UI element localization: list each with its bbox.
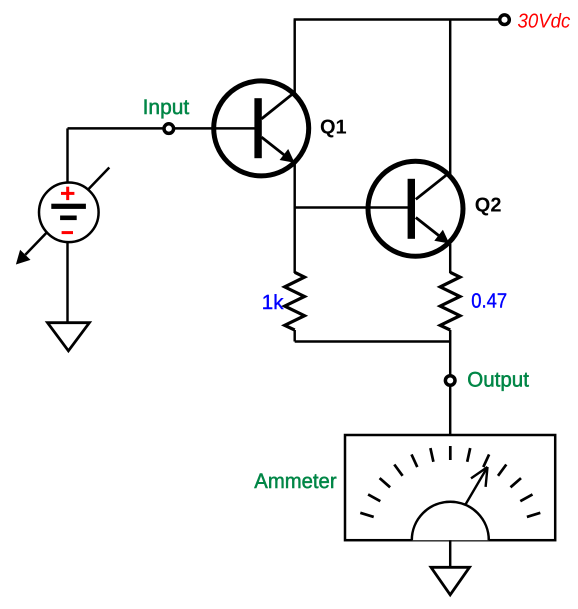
source V1 variable battery with arrow — [16, 168, 109, 265]
wire: Q1 emitter down to 1k resistor — [293, 164, 295, 274]
Q1 emitter line with arrow — [262, 137, 285, 155]
svg-text:Ammeter: Ammeter — [254, 470, 336, 493]
ground (bottom) — [431, 567, 470, 595]
ammeter needle — [465, 467, 487, 505]
transistor Q1 — [212, 81, 309, 176]
wire: Q2 emitter to 0.47 resistor — [449, 244, 451, 273]
ground (left) — [48, 323, 90, 351]
wire: top 30V rail horizontal — [294, 18, 500, 20]
wire: ammeter to ground — [449, 540, 451, 568]
resistor 1k zigzag — [285, 272, 305, 330]
source circle — [39, 183, 99, 243]
wire: Q1 collector drop from rail — [293, 20, 295, 94]
terminal node 30Vdc — [500, 15, 510, 25]
ammeter scale ticks — [360, 446, 540, 517]
terminal node Output — [445, 376, 455, 386]
resistor 0.47 zigzag — [440, 272, 460, 330]
Q2 emitter line with arrow — [416, 218, 439, 236]
Q1 collector line — [262, 92, 296, 119]
wire: source top vertical — [66, 128, 68, 184]
wire: source to ground — [66, 242, 68, 322]
transistor Q2 — [366, 161, 463, 256]
svg-text:1k: 1k — [262, 291, 284, 314]
Q2 collector line — [416, 172, 450, 199]
svg-text:Input: Input — [143, 96, 190, 119]
battery long plate — [51, 204, 86, 209]
minus mark — [62, 231, 73, 234]
svg-text:0.47: 0.47 — [471, 289, 507, 312]
arrow through source — [25, 168, 109, 255]
wire: input horizontal to Q1 base — [68, 127, 255, 129]
plus mark — [61, 192, 74, 195]
svg-text:Q2: Q2 — [475, 195, 502, 217]
battery short plate — [60, 216, 77, 221]
terminal node Input — [164, 124, 174, 134]
wire: Q2 base horizontal — [295, 206, 408, 208]
wire: bottom horizontal joining resistors — [295, 340, 451, 342]
ammeter pivot semicircle — [412, 502, 489, 541]
ammeter box — [345, 435, 555, 540]
wire: Q2 collector drop from rail — [449, 20, 451, 175]
wire: 1k bottom stub — [293, 330, 295, 342]
svg-text:Output: Output — [467, 369, 529, 392]
svg-text:30Vdc: 30Vdc — [518, 10, 571, 32]
wire: 0.47 down through junction to ammeter — [449, 330, 451, 436]
svg-text:Q1: Q1 — [320, 116, 347, 138]
